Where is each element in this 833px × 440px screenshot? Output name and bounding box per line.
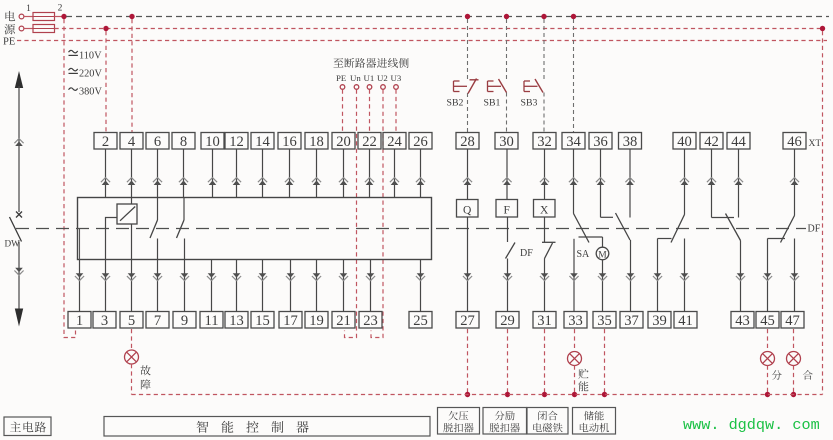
disconnect DW fixed contact x <box>16 212 22 218</box>
wire terminal 2 to controller (plug contact) <box>105 149 107 198</box>
feeder plug contact upper <box>14 139 23 144</box>
terminal 37 <box>620 312 643 329</box>
svg-text:DF: DF <box>520 248 533 259</box>
breaker mechanism symbol (square with diagonal) <box>117 204 137 224</box>
power line N (dashed, row 2) <box>55 28 823 30</box>
svg-text:DW: DW <box>5 239 21 249</box>
svg-text:16: 16 <box>282 134 297 150</box>
svg-text:SB2: SB2 <box>447 98 464 109</box>
terminal 4 <box>120 133 143 150</box>
auxiliary contact S2 (terminals 8-9) <box>183 198 185 221</box>
terminal 17 <box>279 312 302 329</box>
caption box 储能电动机 <box>573 408 616 435</box>
wire controller to terminal 1 (plug contact) <box>79 260 81 312</box>
wire terminal1 to fuse FU1 <box>24 16 33 18</box>
wire terminal 41 (plug contact) <box>684 239 686 312</box>
wire node row2 down to terminal 2 (dashed) <box>105 31 107 133</box>
node dot bus x793 <box>791 392 796 397</box>
svg-text:11: 11 <box>204 313 218 329</box>
wire lamp to bus (dashed) <box>574 366 576 395</box>
wire controller to terminal 13 (plug contact) <box>236 260 238 312</box>
svg-text:13: 13 <box>229 313 244 329</box>
changeover blade 36/38 <box>616 213 631 240</box>
terminal 1 <box>68 312 91 329</box>
svg-text:M: M <box>598 251 607 261</box>
terminal 32 <box>533 133 556 150</box>
terminal 38 <box>619 133 642 150</box>
terminal 23 <box>359 312 382 329</box>
terminal 30 <box>495 133 518 150</box>
wire row1 to SB1 (dashed) <box>506 19 508 79</box>
svg-text:18: 18 <box>309 134 324 150</box>
wire terminal2 to fuse FU2 <box>24 28 33 30</box>
svg-text:36: 36 <box>593 134 608 150</box>
wire terminal 5 to fault lamp (dashed) <box>131 329 133 350</box>
indicator lamp 故障 (fault) <box>125 350 139 364</box>
wire node A2 down to terminal 1 hook (dashed) <box>64 19 76 338</box>
contact step terminal 39 <box>658 238 672 240</box>
wire U1 circle to terminal 22 (dashed) <box>369 90 371 133</box>
wire F down <box>507 217 509 242</box>
wire controller to terminal 11 (plug contact) <box>211 260 213 312</box>
node dot row2 x822 <box>820 26 825 31</box>
caption box 闭合电磁铁 <box>527 408 568 435</box>
wire terminal 28 down (plug contact) <box>467 149 469 200</box>
terminal 41 <box>674 312 697 329</box>
node dot bus x507 <box>505 392 510 397</box>
terminal 18 <box>305 133 328 150</box>
wire contact to terminal 29 (plug contact) <box>507 259 509 312</box>
terminal circle U3 <box>394 85 399 90</box>
wire terminal 46 down (plug contact) <box>794 149 796 216</box>
terminal circle U2 <box>381 85 386 90</box>
terminal circle Un <box>354 85 359 90</box>
node A2 junction dot <box>61 14 66 19</box>
terminal 24 <box>383 133 406 150</box>
svg-text:220V: 220V <box>79 69 102 80</box>
svg-text:38: 38 <box>623 134 638 150</box>
wire SA to terminal 33 (plug contact) <box>573 239 575 312</box>
wire controller to terminal 23 (plug contact) <box>370 260 372 312</box>
terminal 25 <box>409 312 432 329</box>
wire terminal 6 to controller (plug contact) <box>157 149 159 198</box>
pushbutton SB1 (NO) <box>487 81 489 92</box>
wire node row1 down to terminal 4 (dashed) <box>131 19 133 133</box>
svg-text:9: 9 <box>181 313 188 329</box>
indicator lamp 贮能 <box>568 352 582 366</box>
svg-text:43: 43 <box>735 313 750 329</box>
label 故障 <box>140 365 150 375</box>
terminal 42 <box>700 133 723 150</box>
svg-text:SB1: SB1 <box>484 98 501 109</box>
wire lamp 分 to bus (dashed) <box>767 366 769 395</box>
wire controller to terminal 25 (plug contact) <box>420 260 422 312</box>
svg-text:Q: Q <box>463 205 472 217</box>
svg-text:30: 30 <box>499 134 514 150</box>
feeder wire lower <box>18 242 20 310</box>
terminal 11 <box>200 312 223 329</box>
main circuit feeder arrow up <box>15 71 23 88</box>
wire PE circle to terminal 20 (dashed) <box>342 90 344 133</box>
terminal 44 <box>727 133 750 150</box>
terminal 40 <box>673 133 696 150</box>
svg-text:17: 17 <box>283 313 298 329</box>
main circuit feeder arrow down <box>15 309 23 327</box>
wire terminal 14 to controller (plug contact) <box>262 149 264 198</box>
terminal 12 <box>225 133 248 150</box>
wire terminal 35 to bus (dashed) <box>604 329 606 395</box>
wire terminal 34 down (plug contact) <box>573 149 575 214</box>
svg-text:45: 45 <box>760 313 775 329</box>
wire terminal 26 to controller (plug contact) <box>420 149 422 198</box>
indicator lamp 合 <box>787 352 801 366</box>
wire Q to terminal 27 (plug contact) <box>467 217 469 312</box>
voltage label 380V <box>69 88 78 91</box>
wire terminal 44 down (plug contact) <box>738 149 740 218</box>
wire fault lamp to bus (dashed) <box>131 364 133 395</box>
svg-text:PE: PE <box>336 73 346 83</box>
svg-text:33: 33 <box>568 313 583 329</box>
terminal 35 <box>593 312 616 329</box>
terminal 33 <box>564 312 587 329</box>
wire SB2 to terminal 28 (dashed) <box>467 93 469 133</box>
node dot bus x604 <box>602 392 607 397</box>
contact DF (below F) <box>506 243 516 259</box>
terminal 26 <box>409 133 432 150</box>
terminal 5 <box>120 312 143 329</box>
relay Q (undervoltage release) <box>457 200 479 218</box>
caption box 智能控制器 <box>104 417 430 437</box>
terminal 43 <box>731 312 754 329</box>
wire right edge drop from row2 (dashed) <box>822 31 824 395</box>
wire terminal 18 to controller (plug contact) <box>316 149 318 198</box>
terminal 22 <box>358 133 381 150</box>
pushbutton SB2 (NC) <box>453 81 455 92</box>
wire row1 to terminal 34 (dashed) <box>573 19 575 133</box>
terminal 10 <box>201 133 224 150</box>
svg-text:U3: U3 <box>391 73 402 83</box>
terminal 45 <box>756 312 779 329</box>
contact below X <box>542 241 556 243</box>
wire terminal 10 to controller (plug contact) <box>212 149 214 198</box>
wire lamp 合 to bus (dashed) <box>793 366 795 395</box>
terminal circle PE <box>340 85 345 90</box>
terminal 8 <box>172 133 195 150</box>
node dot bus x767 <box>765 392 770 397</box>
svg-text:8: 8 <box>180 134 187 150</box>
svg-text:X: X <box>540 205 549 217</box>
selector SA blade <box>574 214 590 243</box>
svg-text:F: F <box>503 205 509 217</box>
wire changeover to terminal 37 (plug contact) <box>630 240 632 312</box>
wire terminal 32 down (plug contact) <box>544 149 546 200</box>
caption box 主电路 <box>4 417 51 436</box>
wire changeover to terminal 43 (plug contact) <box>740 241 742 312</box>
node dot bus x574 <box>572 392 577 397</box>
wire controller to terminal 19 (plug contact) <box>316 260 318 312</box>
motor M (energy storage) <box>596 247 609 260</box>
wire Un circle down to terminal 21 hook (dashed) <box>345 90 357 338</box>
label 贮能 <box>578 369 588 379</box>
node dot row1 x573 <box>571 14 576 19</box>
wire U3 circle to terminal 24 (dashed) <box>395 90 397 133</box>
svg-text:7: 7 <box>154 313 161 329</box>
caption box 分励脱扣器 <box>483 408 527 435</box>
controller U1 outline <box>78 198 432 260</box>
wire terminal 45 branch (plug contact) <box>767 239 769 312</box>
svg-text:SB3: SB3 <box>521 98 538 109</box>
wire terminal 31 to bus (dashed) <box>544 329 546 395</box>
wire terminal 42 down with step (plug contact) <box>711 149 713 218</box>
wire terminal 27 to bus (dashed) <box>467 329 469 395</box>
terminal 20 <box>332 133 355 150</box>
svg-text:SA: SA <box>577 249 591 260</box>
svg-text:28: 28 <box>460 134 475 150</box>
wire terminal 8 to controller (plug contact) <box>183 149 185 198</box>
terminal circle U1 <box>367 85 372 90</box>
terminal 19 <box>305 312 328 329</box>
wire terminal 39 branch (plug contact) <box>657 239 659 312</box>
node dot row2 x106 <box>103 26 108 31</box>
node dot row1 x506 <box>504 14 509 19</box>
svg-text:DF: DF <box>808 224 821 235</box>
svg-text:1: 1 <box>26 4 31 14</box>
power label 电源 <box>5 11 15 21</box>
svg-text:380V: 380V <box>79 87 102 98</box>
wire terminal 22 to controller (plug contact) <box>369 149 371 198</box>
power line L (dashed, row 1) <box>66 16 829 18</box>
svg-text:21: 21 <box>336 313 351 329</box>
svg-text:40: 40 <box>677 134 692 150</box>
terminal 6 <box>146 133 169 150</box>
changeover blade 42/44 <box>726 214 741 241</box>
wire controller to terminal 21 (plug contact) <box>343 260 345 312</box>
svg-text:2: 2 <box>58 4 63 14</box>
wire terminal 47 (plug contact) <box>794 239 796 312</box>
svg-text:31: 31 <box>537 313 552 329</box>
svg-text:25: 25 <box>413 313 428 329</box>
power input terminal 1 (circle) <box>19 14 24 19</box>
terminal 29 <box>496 312 519 329</box>
svg-text:19: 19 <box>309 313 324 329</box>
terminal 34 <box>562 133 585 150</box>
terminal 3 <box>93 312 116 329</box>
wire terminal 36 down with step (plug contact) <box>600 149 602 217</box>
svg-text:44: 44 <box>731 134 746 150</box>
internal stub terminal 1 <box>79 229 81 260</box>
svg-text:1: 1 <box>76 313 83 329</box>
svg-text:5: 5 <box>128 313 135 329</box>
terminal 36 <box>589 133 612 150</box>
svg-text:46: 46 <box>787 134 802 150</box>
wire terminal 40 down (plug contact) <box>684 149 686 215</box>
svg-text:U2: U2 <box>377 73 388 83</box>
changeover blade 40 <box>671 215 685 243</box>
wire terminal 38 down (plug contact) <box>629 149 631 218</box>
indicator lamp 分 <box>761 352 775 366</box>
bottom bus (dashed) <box>132 394 823 396</box>
svg-text:29: 29 <box>500 313 515 329</box>
feeder plug contact lower <box>15 268 23 273</box>
disconnect DW blade <box>10 217 22 242</box>
wire mechanism to terminal 3 <box>106 218 118 312</box>
svg-text:www. dgdqw. com: www. dgdqw. com <box>683 416 820 434</box>
terminal 46 <box>783 133 806 150</box>
relay X (closing electromagnet) <box>534 200 556 218</box>
wire fuse FU1 to node A2 <box>55 16 65 18</box>
main dashed actuation line <box>16 228 806 230</box>
node dot row1 x544 <box>541 14 546 19</box>
svg-text:4: 4 <box>128 134 136 150</box>
wire terminal 16 to controller (plug contact) <box>289 149 291 198</box>
terminal 16 <box>278 133 301 150</box>
wire terminal 12 to controller (plug contact) <box>236 149 238 198</box>
terminal 28 <box>456 133 479 150</box>
terminal 9 <box>173 312 196 329</box>
terminal 2 <box>94 133 117 150</box>
auxiliary contact S1 (terminals 6-7) <box>157 198 159 221</box>
svg-text:6: 6 <box>154 134 161 150</box>
wire terminal 30 down (plug contact) <box>506 149 508 200</box>
pushbutton SB3 (NO) <box>523 81 525 92</box>
svg-text:23: 23 <box>363 313 378 329</box>
terminal 21 <box>332 312 355 329</box>
wire SB1 to terminal 30 (dashed) <box>506 93 508 133</box>
terminal 27 <box>456 312 479 329</box>
wire U2 circle down to terminal 23 hook (dashed) <box>371 90 383 338</box>
fuse FU2 <box>33 25 55 33</box>
svg-text:20: 20 <box>336 134 351 150</box>
wire SB3 to terminal 32 (dashed) <box>543 93 545 133</box>
caption box 欠压脱扣器 <box>438 408 480 435</box>
wire row1 to SB3 (dashed) <box>543 19 545 79</box>
terminal 31 <box>533 312 556 329</box>
fuse FU1 <box>33 13 55 21</box>
terminal 14 <box>251 133 274 150</box>
svg-text:U1: U1 <box>364 73 375 83</box>
svg-text:47: 47 <box>785 313 800 329</box>
svg-text:42: 42 <box>704 134 719 150</box>
wire controller to terminal 15 (plug contact) <box>262 260 264 312</box>
terminal 15 <box>251 312 274 329</box>
wire terminal 45 to lamp (dashed) <box>767 329 769 352</box>
svg-text:24: 24 <box>387 134 402 150</box>
svg-text:XT: XT <box>809 139 822 149</box>
PE line (dashed, row 3) <box>17 40 827 42</box>
relay F (shunt release) <box>496 200 518 218</box>
voltage label 110V <box>69 50 78 53</box>
wire motor to terminal 35 (plug contact) <box>602 260 604 311</box>
node dot bus x467 <box>465 392 470 397</box>
svg-text:12: 12 <box>229 134 244 150</box>
svg-text:110V: 110V <box>79 51 102 62</box>
wire terminal 4 to controller (plug contact) <box>131 149 133 198</box>
contact step terminal 45 <box>768 238 786 240</box>
wire terminal 29 to bus (dashed) <box>507 329 509 395</box>
svg-text:15: 15 <box>255 313 270 329</box>
terminal 47 <box>781 312 804 329</box>
svg-text:27: 27 <box>460 313 475 329</box>
wire SA step to motor <box>579 236 603 238</box>
svg-text:37: 37 <box>624 313 639 329</box>
wire terminal 20 to controller (plug contact) <box>343 149 345 198</box>
svg-text:Un: Un <box>350 73 361 83</box>
node dot row1 x467 <box>465 14 470 19</box>
svg-text:22: 22 <box>362 134 377 150</box>
voltage label 220V <box>69 68 78 71</box>
svg-text:32: 32 <box>537 134 552 150</box>
changeover blade 46 <box>781 216 795 243</box>
label 分 <box>772 370 782 380</box>
label 合 <box>803 370 813 380</box>
svg-text:3: 3 <box>101 313 108 329</box>
wire row1 to SB2 (dashed) <box>467 19 469 79</box>
terminal 39 <box>648 312 671 329</box>
svg-text:10: 10 <box>205 134 220 150</box>
wire terminal 33 to lamp (dashed) <box>574 329 576 352</box>
svg-text:26: 26 <box>413 134 428 150</box>
node dot row1 x132 <box>129 14 134 19</box>
svg-text:39: 39 <box>652 313 667 329</box>
node dot bus x544 <box>542 392 547 397</box>
wire X down <box>544 217 546 242</box>
wire contact to terminal 31 (plug contact) <box>544 259 546 312</box>
wire terminal 24 to controller (plug contact) <box>394 149 396 198</box>
wire terminal 47 to lamp (dashed) <box>793 329 795 352</box>
svg-text:PE: PE <box>3 37 15 48</box>
label 至断路器进线侧 <box>333 58 343 67</box>
svg-text:14: 14 <box>255 134 270 150</box>
wire controller to terminal 17 (plug contact) <box>290 260 292 312</box>
svg-text:35: 35 <box>597 313 612 329</box>
terminal 13 <box>225 312 248 329</box>
svg-text:34: 34 <box>566 134 581 150</box>
svg-text:2: 2 <box>102 134 109 150</box>
terminal 7 <box>146 312 169 329</box>
power input terminal 2 (circle) <box>19 26 24 31</box>
wire mechanism to terminal 5 <box>131 198 133 205</box>
svg-text:41: 41 <box>678 313 693 329</box>
